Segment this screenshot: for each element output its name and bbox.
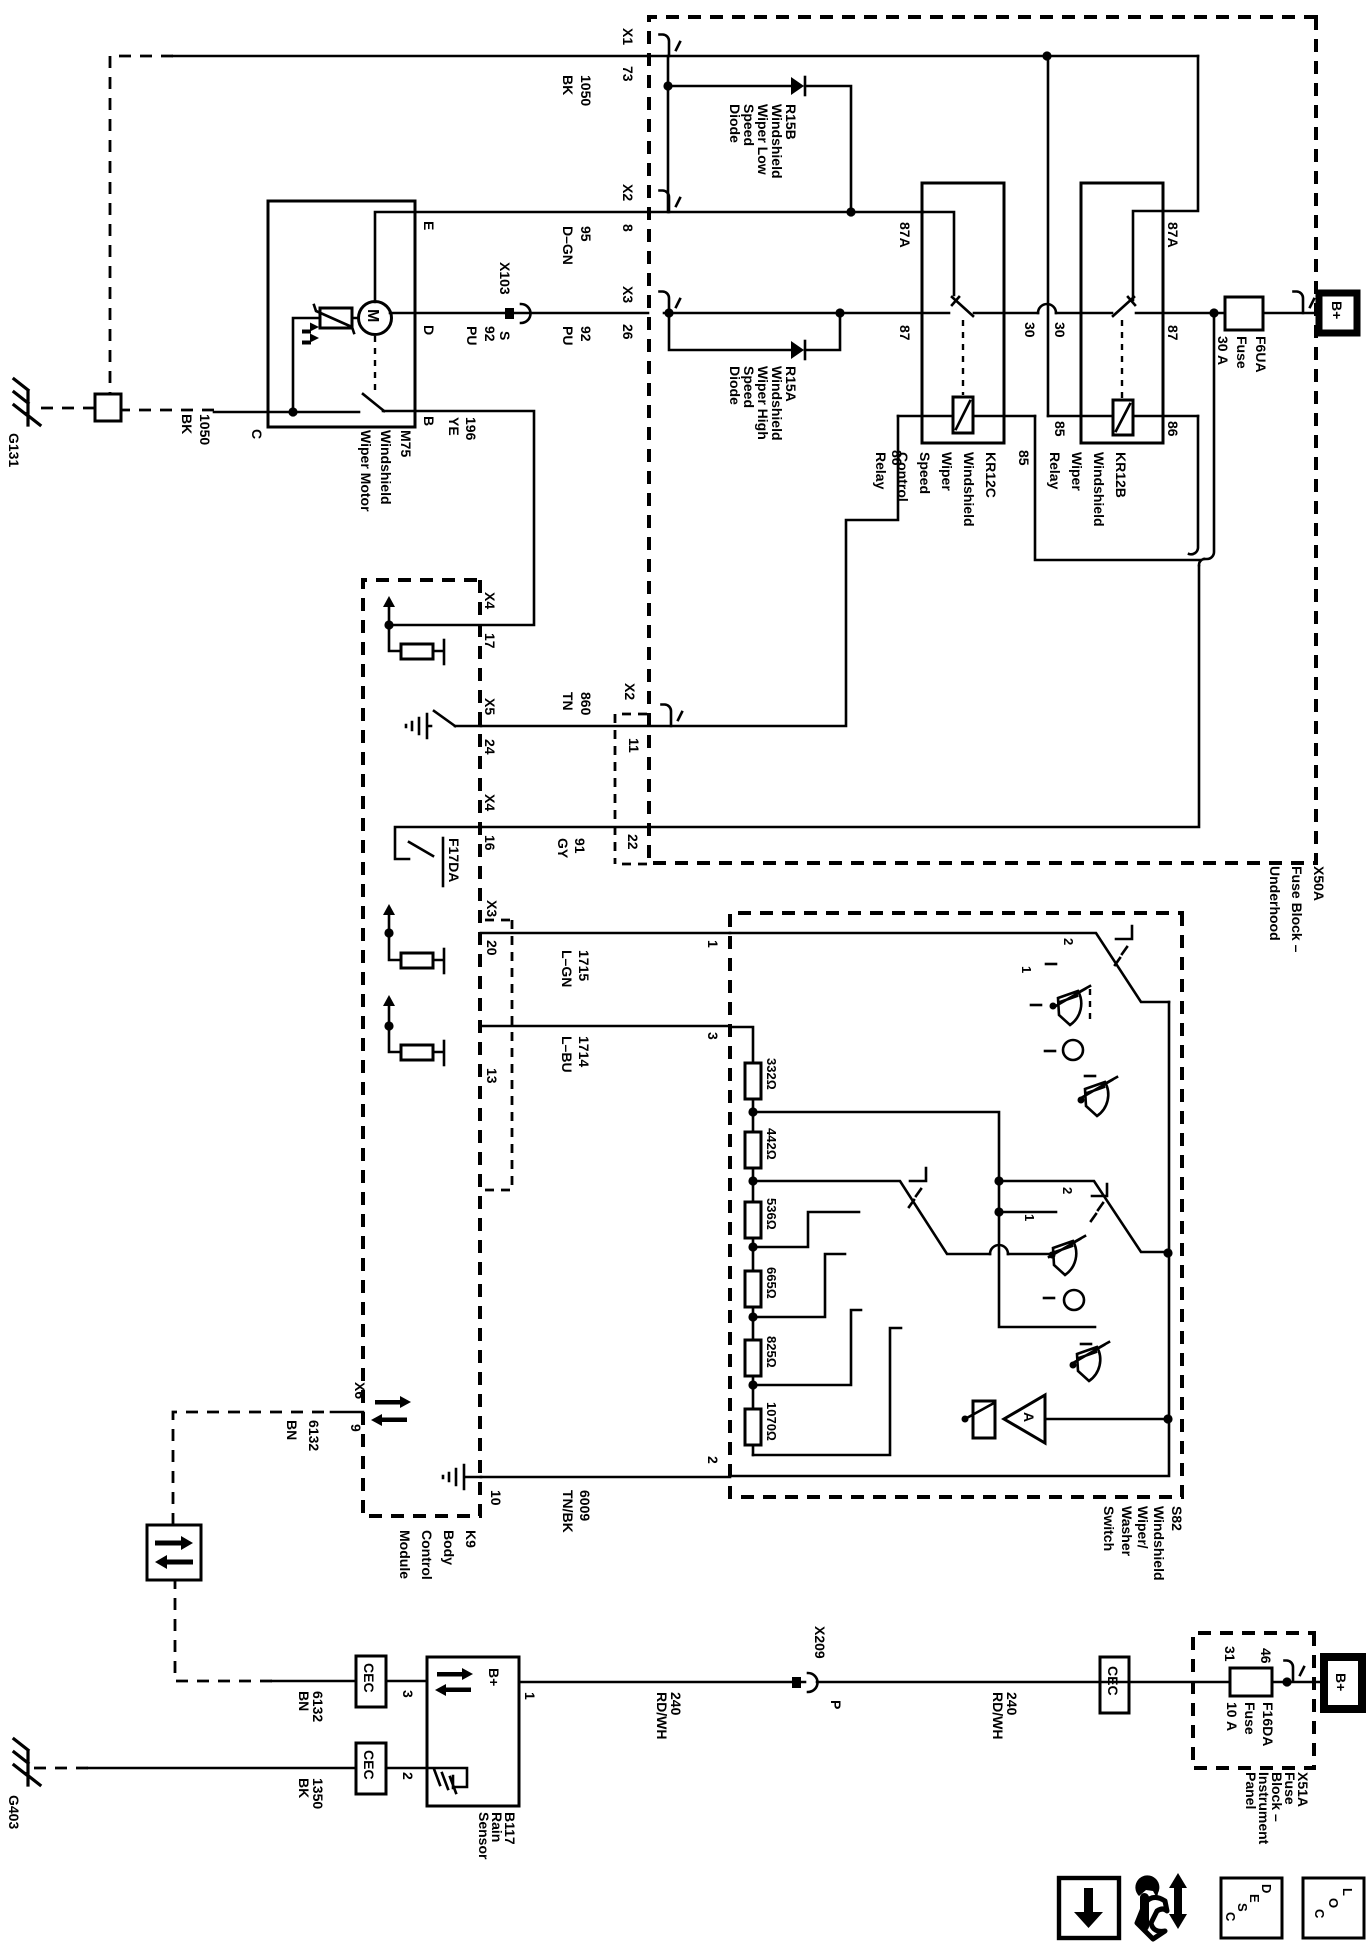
motor pin B lead <box>383 410 415 413</box>
svg-text:PU: PU <box>560 326 576 345</box>
svg-text:X4: X4 <box>482 794 498 811</box>
svg-text:BK: BK <box>560 75 576 95</box>
B117 internal ground <box>427 1768 467 1793</box>
label 6132 BN (lower) <box>296 1691 326 1722</box>
svg-text:13: 13 <box>484 1068 500 1084</box>
KR12B pin 87A contact <box>1133 211 1163 300</box>
resistor chain feed pin3 <box>730 1027 753 1455</box>
svg-text:91: 91 <box>572 838 588 854</box>
washer pump branch <box>1045 1418 1168 1421</box>
svg-text:P: P <box>828 1700 844 1709</box>
label R15B Windshield Wiper Low Speed Diode <box>727 104 799 179</box>
svg-text:Relay: Relay <box>1047 452 1063 490</box>
label 1050 BK (lower) <box>179 414 213 445</box>
stub J4 contact <box>753 1254 845 1317</box>
fuse F6UA 30A <box>1215 297 1269 373</box>
svg-text:332Ω: 332Ω <box>764 1058 779 1090</box>
svg-text:K9: K9 <box>463 1530 479 1548</box>
washer A triangle <box>1004 1395 1045 1443</box>
label 240 RD/WH (right) <box>654 1692 684 1739</box>
svg-text:F17DA: F17DA <box>446 838 462 882</box>
svg-text:E: E <box>421 221 437 230</box>
svg-text:825Ω: 825Ω <box>764 1336 779 1368</box>
diode R15A branch <box>669 313 840 350</box>
svg-text:F16DA: F16DA <box>1260 1702 1276 1746</box>
svg-text:Wiper: Wiper <box>939 452 955 491</box>
hook at F16DA feed <box>1285 1661 1305 1681</box>
svg-text:2: 2 <box>400 1772 416 1780</box>
svg-text:2: 2 <box>705 1456 721 1464</box>
legend DESC box <box>1221 1878 1282 1938</box>
svg-text:X5: X5 <box>482 698 498 715</box>
svg-text:95: 95 <box>578 226 594 242</box>
svg-text:30: 30 <box>1052 322 1068 338</box>
svg-text:85: 85 <box>1016 450 1032 466</box>
svg-text:31: 31 <box>1222 1646 1238 1662</box>
battery terminal B+ (top) <box>1319 293 1357 333</box>
battery terminal B+ (bottom) <box>1324 1657 1362 1709</box>
motor E lead to armature <box>375 212 415 302</box>
wiper icon high <box>1070 1342 1110 1381</box>
svg-text:1714: 1714 <box>576 1036 592 1067</box>
svg-text:RD/WH: RD/WH <box>990 1692 1006 1739</box>
svg-text:87A: 87A <box>1165 222 1181 248</box>
wire 1050 BK dashed to grommet <box>110 56 173 394</box>
wire 1050 BK dashed motor C <box>121 409 214 412</box>
label R15A Windshield Wiper High Speed Diode <box>727 366 799 441</box>
stub J3 contact <box>753 1212 859 1247</box>
svg-text:A: A <box>1021 1412 1037 1422</box>
label KR12C Windshield Wiper Speed Control Relay <box>873 452 999 527</box>
motor armature M circle <box>359 302 392 335</box>
label 91 GY <box>555 838 588 859</box>
off circle (wafer2) <box>1064 1290 1084 1310</box>
svg-text:2: 2 <box>1060 1187 1075 1194</box>
svg-text:1715: 1715 <box>576 950 592 981</box>
dash mark (wafer1 low) <box>1085 1075 1095 1078</box>
hook X2 pin 8 <box>660 191 681 213</box>
resistor 1070 ohm <box>745 1409 761 1445</box>
BCM ground switch X5-24 <box>406 711 481 738</box>
wiper icon mist <box>1050 986 1091 1025</box>
wire 1350 BK B117 to CEC <box>386 1767 427 1770</box>
dashed 1350 BK <box>33 1767 88 1770</box>
svg-text:BK: BK <box>179 414 195 434</box>
svg-text:Control: Control <box>419 1530 435 1580</box>
wire 6132 BN below CEC <box>272 1680 356 1683</box>
diode R15B loop jumper <box>667 56 670 212</box>
fuse block X50A dashed box <box>649 17 1316 863</box>
svg-text:GY: GY <box>555 838 571 859</box>
svg-text:1070Ω: 1070Ω <box>764 1402 779 1441</box>
label X50A Fuse Block - Underhood <box>1267 866 1327 953</box>
BCM K9 dashed box <box>363 580 480 1516</box>
fuse F16DA 10A <box>1224 1668 1276 1746</box>
svg-text:D: D <box>1259 1884 1274 1893</box>
svg-text:E: E <box>1247 1894 1262 1903</box>
svg-text:10: 10 <box>488 1490 504 1506</box>
svg-text:X2: X2 <box>622 683 638 700</box>
svg-text:L–BU: L–BU <box>559 1036 575 1073</box>
wire 92 PU X3-26 to X103 <box>415 312 648 315</box>
svg-text:S82: S82 <box>1169 1506 1185 1531</box>
svg-text:X3: X3 <box>484 900 500 917</box>
wire 1715 L-GN BCM to S82 pin 1 <box>481 932 730 935</box>
svg-text:Windshield: Windshield <box>1091 452 1107 527</box>
svg-text:85: 85 <box>1052 421 1068 437</box>
KR12C coil dashed link <box>962 320 964 395</box>
wire 91 GY from junction to X2-22 and BCM X4-16 <box>481 566 1199 827</box>
svg-text:Body: Body <box>441 1530 457 1565</box>
wire B+ to fuse <box>1263 312 1319 315</box>
svg-text:X209: X209 <box>812 1626 828 1659</box>
svg-text:B: B <box>421 416 437 426</box>
svg-text:1050: 1050 <box>578 75 594 106</box>
label 95 D-GN <box>560 226 594 265</box>
svg-text:Diode: Diode <box>727 104 743 143</box>
dot R15B on 87A wire <box>846 207 855 216</box>
motor circuit breaker <box>314 305 354 333</box>
svg-text:B+: B+ <box>1329 301 1345 319</box>
svg-text:X1: X1 <box>620 28 636 45</box>
svg-text:6009: 6009 <box>577 1490 593 1521</box>
svg-text:YE: YE <box>446 417 462 436</box>
label B117 Rain Sensor <box>476 1812 518 1860</box>
svg-text:X6: X6 <box>352 1382 368 1399</box>
svg-text:86: 86 <box>1165 421 1181 437</box>
svg-text:Switch: Switch <box>1101 1506 1117 1551</box>
chain junction dots <box>748 1107 757 1389</box>
svg-text:1050: 1050 <box>197 414 213 445</box>
BCM input driver X3-13 <box>383 995 444 1065</box>
svg-text:1: 1 <box>522 1692 538 1700</box>
dot ladder delay contact <box>994 1207 1003 1216</box>
wire 1350 BK to G403 <box>88 1767 356 1770</box>
label 92 PU (upper) <box>560 326 594 345</box>
KR12C coil <box>953 397 973 433</box>
svg-text:B+: B+ <box>1333 1673 1349 1691</box>
dot R15B jumper <box>663 81 672 90</box>
resistor 442 ohm <box>745 1132 761 1168</box>
svg-text:30: 30 <box>1022 322 1038 338</box>
S82 switch dashed box <box>730 913 1182 1497</box>
wire 95 D-GN X2-8 to motor E <box>415 211 923 214</box>
hop wafer2 arm over ladder <box>990 1245 1008 1254</box>
washer switch <box>962 1401 996 1438</box>
svg-text:87: 87 <box>1165 325 1181 341</box>
dash mark (off wafer2) <box>1044 1297 1054 1300</box>
wafer3 arm icon <box>1091 1184 1107 1221</box>
svg-text:24: 24 <box>482 739 498 755</box>
hook X1 pin 73 <box>660 35 681 57</box>
dash mark (wafer1 pos2) <box>1046 963 1056 966</box>
svg-text:1: 1 <box>1022 1214 1037 1221</box>
wire 1050 BK X1-73 to grommet <box>173 55 648 58</box>
svg-text:X2: X2 <box>620 184 636 201</box>
svg-text:F6UA: F6UA <box>1253 336 1269 373</box>
svg-text:S: S <box>1235 1903 1250 1912</box>
label 92 PU (lower) <box>464 326 498 345</box>
svg-text:17: 17 <box>482 633 498 649</box>
svg-text:3: 3 <box>705 1032 721 1040</box>
svg-text:Windshield: Windshield <box>378 430 394 505</box>
legend service tools icon <box>1135 1873 1187 1939</box>
dot at fuse output <box>1282 1677 1291 1686</box>
svg-text:Windshield: Windshield <box>1151 1506 1167 1581</box>
svg-text:Panel: Panel <box>1243 1772 1259 1809</box>
relay KR12B box <box>1081 183 1163 443</box>
label X51A Fuse Block - Instrument Panel <box>1243 1772 1311 1845</box>
svg-text:Wiper/: Wiper/ <box>1135 1506 1151 1549</box>
svg-text:9: 9 <box>348 1424 364 1432</box>
motor pin C wire <box>268 411 293 414</box>
connector CEC (6132) <box>356 1656 386 1707</box>
diode R15B symbol <box>791 77 805 95</box>
label 6132 BN (upper) <box>284 1420 322 1451</box>
svg-text:87: 87 <box>897 325 913 341</box>
wafer2 arm from 442 junction <box>753 1181 1052 1254</box>
wire 1050 BK motor C to grommet <box>214 411 268 414</box>
legend arrow box <box>1059 1878 1119 1938</box>
diode R15A symbol <box>791 341 805 359</box>
motor park switch dashed link <box>374 336 376 392</box>
resistor 332 ohm <box>745 1063 761 1099</box>
BCM input driver X3-20 <box>383 904 444 973</box>
svg-text:26: 26 <box>620 324 636 340</box>
label 860 TN <box>560 692 594 716</box>
svg-text:Washer: Washer <box>1119 1506 1135 1557</box>
label 1350 BK <box>296 1778 326 1809</box>
label K9 Body Control Module <box>397 1530 479 1580</box>
motor thermal arrows <box>302 323 319 345</box>
wafer2 arm icon <box>909 1168 926 1207</box>
wire KR12B 87A feed from ground bus <box>1163 56 1198 211</box>
in-line connector X3 dashed <box>482 920 512 1190</box>
svg-text:Module: Module <box>397 1530 413 1579</box>
motor circuit breaker line <box>293 318 358 412</box>
chain end contact <box>753 1328 901 1455</box>
dot washer branch on return <box>1163 1414 1172 1423</box>
svg-text:C: C <box>1312 1909 1327 1919</box>
label 196 YE <box>446 417 479 441</box>
in-line connector X209 <box>808 1673 818 1692</box>
wiper icon low (wafer1) <box>1078 1077 1118 1116</box>
svg-text:Relay: Relay <box>873 452 889 490</box>
svg-text:D–GN: D–GN <box>560 226 576 265</box>
svg-text:TN: TN <box>560 692 576 711</box>
label M75 Windshield Wiper Motor <box>358 430 414 512</box>
svg-text:BN: BN <box>296 1691 312 1711</box>
dashed travel mark (wafer1) <box>1089 989 1091 1021</box>
junction dot below fuse <box>1209 308 1218 317</box>
BCM input driver X4-17 <box>383 596 444 664</box>
dash mark (high) <box>1081 1343 1091 1346</box>
relay KR12C box <box>922 183 1004 443</box>
wire 6132 BN B117 to CEC <box>386 1680 427 1683</box>
KR12B armature <box>1113 297 1135 316</box>
label S82 Windshield Wiper/ Washer Switch <box>1101 1506 1185 1581</box>
svg-text:CEC: CEC <box>361 1663 377 1693</box>
KR12C coil line 85-86 <box>898 415 1035 418</box>
svg-text:CEC: CEC <box>361 1750 377 1780</box>
KR12B pin85 ground branch to 1050BK <box>1047 56 1050 416</box>
dash mark (wafer1 pos1) <box>1031 1004 1041 1007</box>
svg-text:92: 92 <box>578 326 594 342</box>
svg-text:BK: BK <box>296 1778 312 1798</box>
hook X3 pin 26 <box>660 292 681 314</box>
wire 1050 BK ground bus inside fuse block (X1-73) <box>648 55 1198 58</box>
svg-text:87A: 87A <box>897 222 913 248</box>
dash mark (off wafer1) <box>1045 1050 1055 1053</box>
dot motor C junction <box>288 407 297 416</box>
hook X2 pin 11 <box>662 705 683 727</box>
svg-text:RD/WH: RD/WH <box>654 1692 670 1739</box>
svg-text:S: S <box>497 331 513 340</box>
B117 serial data symbol <box>435 1668 473 1696</box>
svg-text:CEC: CEC <box>1105 1666 1121 1696</box>
svg-text:1: 1 <box>705 940 721 948</box>
svg-text:G131: G131 <box>6 433 22 467</box>
svg-text:Sensor: Sensor <box>476 1812 492 1860</box>
svg-text:46: 46 <box>1258 1648 1274 1664</box>
svg-text:L–GN: L–GN <box>559 950 575 987</box>
svg-text:73: 73 <box>620 66 636 82</box>
off circle (wafer1) <box>1063 1040 1083 1060</box>
splice pass-through box <box>147 1525 201 1580</box>
svg-text:PU: PU <box>464 326 480 345</box>
dot R15A lower <box>664 308 673 317</box>
svg-text:Wiper Motor: Wiper Motor <box>358 430 374 512</box>
diode R15B branch <box>668 86 851 212</box>
svg-text:Speed: Speed <box>917 452 933 494</box>
stub J1 to delay contact ladder <box>753 1112 1095 1327</box>
svg-text:X103: X103 <box>497 262 513 295</box>
wafer3 arm from ladder <box>999 1181 1168 1252</box>
resistor 536 ohm <box>745 1202 761 1238</box>
svg-text:92: 92 <box>482 326 498 342</box>
svg-text:L: L <box>1340 1888 1355 1896</box>
svg-text:22: 22 <box>625 834 641 850</box>
hop of feed over KR12B-85 ground branch <box>1038 304 1056 313</box>
svg-text:KR12C: KR12C <box>983 452 999 498</box>
dot R15A upper <box>835 308 844 317</box>
motor park switch arm <box>363 394 384 411</box>
wire 196 YE motor B to BCM X4-17 <box>389 411 534 625</box>
svg-text:M75: M75 <box>398 430 414 457</box>
wire 6132 BN into BCM <box>331 1411 363 1414</box>
svg-text:536Ω: 536Ω <box>764 1198 779 1230</box>
svg-text:196: 196 <box>463 417 479 441</box>
svg-text:O: O <box>1326 1898 1341 1908</box>
delay contact stub <box>999 1211 1056 1214</box>
label 1050 BK (upper) <box>560 75 594 106</box>
svg-text:C: C <box>1223 1912 1238 1922</box>
legend LOC box <box>1303 1878 1364 1938</box>
svg-text:X4: X4 <box>482 592 498 609</box>
wire fused feed down to X3 pin 26 <box>664 312 1225 315</box>
svg-text:665Ω: 665Ω <box>764 1267 779 1299</box>
svg-text:8: 8 <box>620 224 636 232</box>
junction curl (B+ / 86 / 85C / 91GY) <box>1199 559 1204 565</box>
wire 860 TN KR12C-86 to BCM X5-24 <box>481 416 898 726</box>
svg-text:Fuse: Fuse <box>1234 336 1250 369</box>
svg-text:KR12B: KR12B <box>1113 452 1129 498</box>
wire 240 RD/WH fuse to B117 <box>519 1681 1230 1684</box>
label 1714 L-BU <box>559 1036 592 1073</box>
wafer1 arm wire pin1 <box>730 933 1169 1002</box>
svg-text:Underhood: Underhood <box>1267 866 1283 941</box>
BCM internal fuse F17DA <box>395 827 481 886</box>
svg-text:2: 2 <box>1061 938 1076 945</box>
svg-text:Fuse: Fuse <box>1242 1702 1258 1735</box>
KR12B coil dashed link <box>1121 320 1123 398</box>
label KR12B Windshield Wiper Relay <box>1047 452 1129 527</box>
svg-text:X50A: X50A <box>1311 866 1327 901</box>
wiper icon low (wafer2) <box>1049 1236 1086 1275</box>
label 6009 TN/BK <box>560 1490 593 1533</box>
svg-text:1: 1 <box>1019 966 1034 973</box>
svg-text:TN/BK: TN/BK <box>560 1490 576 1533</box>
svg-text:16: 16 <box>482 835 498 851</box>
KR12C pin85 wire up to junction <box>1035 416 1200 560</box>
junction dot 1050BK / KR12B-85 branch <box>1042 51 1051 60</box>
svg-text:20: 20 <box>484 940 500 956</box>
KR12C pin 87A contact <box>923 212 954 295</box>
svg-text:B+: B+ <box>486 1668 502 1686</box>
svg-text:Diode: Diode <box>727 366 743 405</box>
svg-text:X3: X3 <box>620 286 636 303</box>
KR12B coil line 86-85 <box>1048 415 1198 418</box>
ground G403 <box>14 1739 40 1785</box>
BCM serial data symbol X6-9 <box>371 1396 411 1426</box>
wire 1714 L-BU BCM to S82 pin 3 <box>481 1025 730 1028</box>
svg-text:11: 11 <box>626 738 642 753</box>
rain sensor B117 box <box>427 1657 519 1806</box>
svg-text:10 A: 10 A <box>1224 1702 1240 1731</box>
svg-text:G403: G403 <box>6 1795 22 1829</box>
connector CEC (1350) <box>356 1743 386 1794</box>
stub J5 contact <box>753 1310 861 1385</box>
wire B+ to fuse F16DA <box>1272 1681 1325 1684</box>
resistor 825 ohm <box>745 1340 761 1376</box>
in-line connector X2 dashed <box>615 714 647 864</box>
connector CEC (240 circuit) <box>1100 1657 1129 1713</box>
ground G131 <box>14 379 40 425</box>
svg-text:3: 3 <box>400 1690 416 1698</box>
dot wafer3 contact on return <box>1163 1248 1172 1257</box>
resistor 665 ohm <box>745 1271 761 1307</box>
wire 6009 TN/BK BCM pin10 to S82 pin 2 <box>481 1476 730 1479</box>
svg-text:Wiper: Wiper <box>1069 452 1085 491</box>
svg-text:Fuse Block –: Fuse Block – <box>1289 866 1305 953</box>
svg-text:BN: BN <box>284 1420 300 1440</box>
svg-text:D: D <box>421 325 437 335</box>
svg-text:442Ω: 442Ω <box>764 1128 779 1160</box>
wire branch v157 from fuse dot to junction curl <box>1204 313 1214 559</box>
BCM internal ground pin 10 <box>443 1465 481 1489</box>
svg-text:C: C <box>249 429 265 439</box>
svg-text:6132: 6132 <box>306 1420 322 1451</box>
motor park fixed contact <box>292 411 359 414</box>
svg-text:30 A: 30 A <box>1215 336 1231 365</box>
in-line connector X103 <box>521 304 531 323</box>
KR12C armature <box>952 297 973 316</box>
grommet <box>95 394 121 421</box>
KR12B pin86 wire to junction <box>1189 416 1198 554</box>
S82 common return line <box>730 1002 1169 1476</box>
dashed 6132 BN to splice box <box>175 1580 272 1681</box>
dashed wire grommet to G131 <box>33 407 95 410</box>
